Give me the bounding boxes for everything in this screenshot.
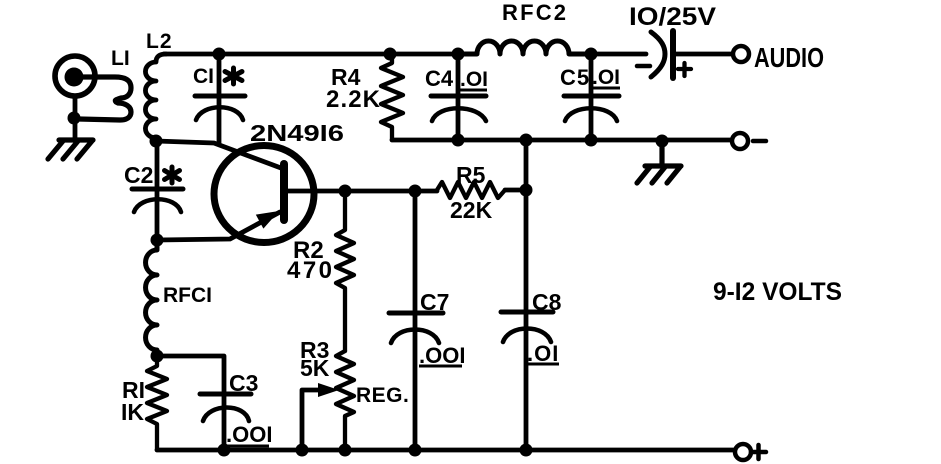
svg-text:.OOI: .OOI [419,343,465,368]
svg-text:.OI: .OI [527,341,559,366]
svg-text:RFCI: RFCI [163,284,212,307]
svg-text:R5: R5 [456,162,486,188]
svg-text:C5: C5 [560,65,590,90]
svg-text:IO/25V: IO/25V [629,3,716,31]
svg-text:.OI: .OI [592,66,620,89]
svg-text:L2: L2 [146,30,173,53]
svg-text:AUDIO: AUDIO [754,42,824,73]
svg-text:C8: C8 [532,289,562,315]
svg-text:9-I2 VOLTS: 9-I2 VOLTS [713,278,842,306]
svg-text:IK: IK [121,399,144,425]
svg-text:REG.: REG. [356,384,409,407]
svg-text:2.2K: 2.2K [326,86,381,113]
svg-text:C7: C7 [420,289,449,315]
svg-text:2N49I6: 2N49I6 [250,120,344,146]
svg-text:.OI: .OI [460,68,488,91]
svg-text:22K: 22K [450,197,493,223]
svg-text:CI: CI [193,65,214,88]
svg-text:LI: LI [111,47,130,70]
svg-text:C3: C3 [229,370,258,396]
svg-text:C4: C4 [425,66,454,91]
svg-text:470: 470 [287,257,332,284]
svg-text:.OOI: .OOI [226,422,272,447]
svg-text:C2: C2 [124,162,153,188]
svg-text:5K: 5K [300,355,330,381]
